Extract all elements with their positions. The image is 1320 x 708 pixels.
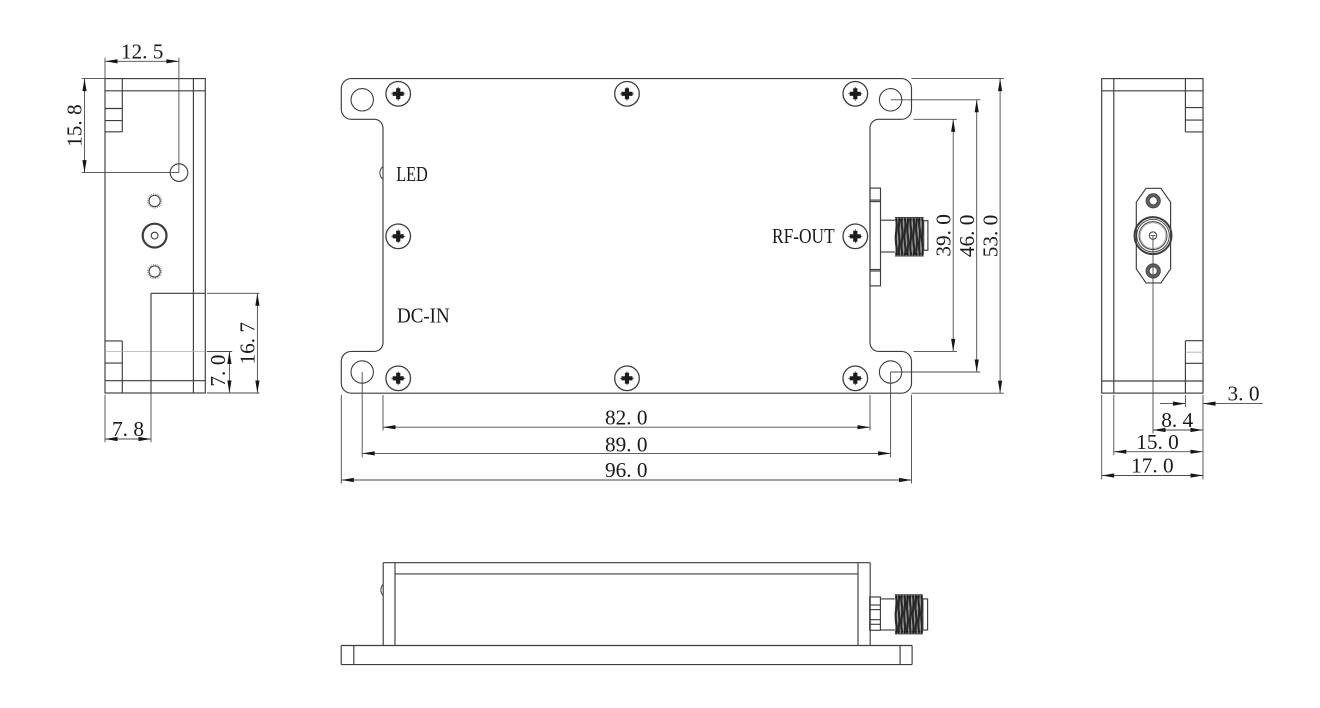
svg-text:39. 0: 39. 0 [932,214,956,257]
svg-text:46. 0: 46. 0 [955,215,979,258]
svg-text:7. 8: 7. 8 [112,417,144,441]
svg-text:15. 8: 15. 8 [63,104,87,147]
svg-text:89. 0: 89. 0 [605,433,648,457]
svg-text:17. 0: 17. 0 [1131,454,1174,478]
svg-text:96. 0: 96. 0 [605,458,648,482]
svg-text:7. 0: 7. 0 [206,355,230,387]
svg-text:53. 0: 53. 0 [979,215,1003,258]
svg-text:16. 7: 16. 7 [235,322,259,365]
svg-text:3. 0: 3. 0 [1228,382,1260,406]
svg-text:82. 0: 82. 0 [605,406,648,430]
svg-text:12. 5: 12. 5 [121,39,164,63]
svg-text:15. 0: 15. 0 [1136,430,1179,454]
svg-text:DC-IN: DC-IN [397,304,450,328]
svg-text:LED: LED [396,162,428,186]
svg-text:RF-OUT: RF-OUT [772,224,835,248]
svg-text:8. 4: 8. 4 [1161,408,1193,432]
